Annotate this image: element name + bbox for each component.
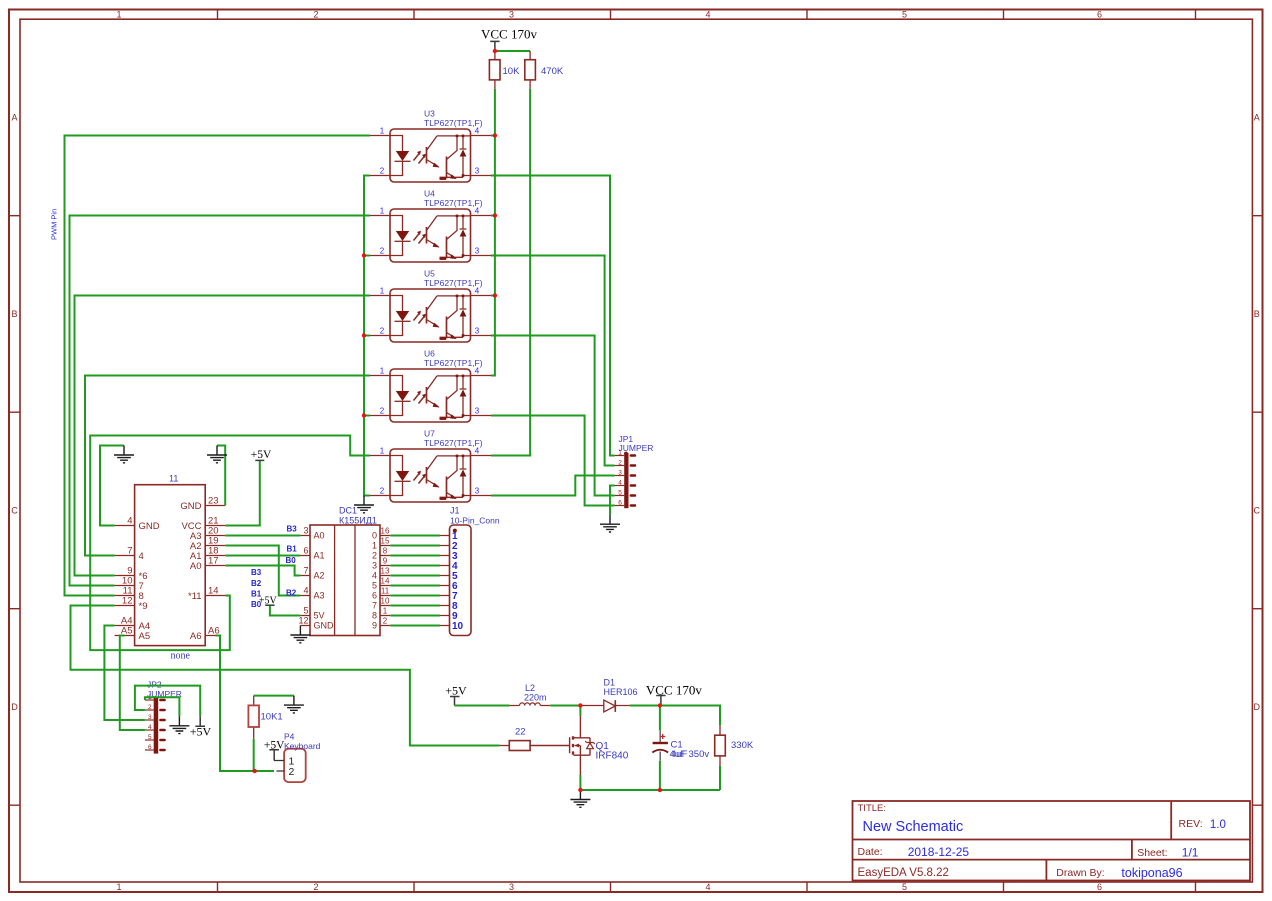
svg-text:*9: *9 — [139, 601, 148, 612]
wire VCC node to 330K — [660, 706, 720, 726]
capacitor C1 4uF 350v — [652, 706, 709, 791]
svg-text:VCC 170v: VCC 170v — [646, 683, 702, 698]
wire U7 pin1 to IC pin 14(*11) — [90, 436, 370, 651]
svg-text:1: 1 — [372, 541, 377, 551]
svg-text:9: 9 — [383, 557, 388, 566]
optocoupler U5 TLP627 — [370, 269, 491, 343]
svg-text:A2: A2 — [314, 571, 325, 581]
wire VCC to 470K top — [495, 50, 530, 52]
wires DC1 outputs to J1 — [390, 536, 440, 626]
junction drain node — [578, 703, 582, 707]
inductor L2 220m — [510, 683, 551, 706]
svg-text:220m: 220m — [524, 692, 547, 702]
svg-text:1: 1 — [116, 882, 121, 892]
svg-text:14: 14 — [381, 577, 390, 586]
junction U5 pin4 — [493, 293, 497, 297]
svg-text:8: 8 — [383, 547, 388, 556]
wire IC A6 to P4 pin2 — [216, 636, 275, 772]
connector P4 Keyboard — [274, 732, 321, 782]
svg-text:5: 5 — [372, 581, 377, 591]
svg-text:10: 10 — [381, 597, 390, 606]
power flag +5V (P4) — [264, 740, 285, 761]
svg-text:TLP627(TP1,F): TLP627(TP1,F) — [424, 358, 483, 368]
svg-text:К155ИД1: К155ИД1 — [339, 515, 377, 525]
svg-text:7: 7 — [127, 546, 132, 557]
svg-text:5: 5 — [303, 606, 308, 616]
svg-text:16: 16 — [381, 527, 390, 536]
svg-text:5: 5 — [902, 9, 907, 19]
wire IC A5 to JP2 pin4 — [120, 636, 145, 731]
svg-text:B: B — [11, 309, 17, 319]
svg-text:B3: B3 — [251, 568, 262, 577]
svg-text:+5V: +5V — [190, 725, 212, 739]
svg-text:5V: 5V — [314, 611, 325, 621]
svg-text:22: 22 — [515, 727, 526, 738]
svg-text:10: 10 — [452, 621, 464, 632]
wire IC A2 to DC1 A3 (net B2) — [225, 546, 300, 596]
junction 10K1/P4 — [252, 769, 256, 773]
ground (right of 10K1) — [284, 696, 304, 713]
svg-text:EasyEDA V5.8.22: EasyEDA V5.8.22 — [858, 867, 949, 879]
svg-text:TLP627(TP1,F): TLP627(TP1,F) — [424, 198, 483, 208]
svg-text:J1: J1 — [450, 506, 460, 516]
svg-text:2: 2 — [383, 617, 388, 626]
junction source/ground — [578, 788, 582, 792]
junction VCC/10K — [493, 49, 497, 53]
svg-text:A5: A5 — [139, 631, 151, 642]
junction U5 pin2 — [362, 333, 366, 337]
power flag VCC 170v (bottom) — [646, 683, 702, 706]
connector J1 10-Pin_Conn — [440, 506, 500, 636]
svg-text:2: 2 — [289, 766, 295, 778]
transistor Q1 IRF840 — [530, 706, 629, 776]
svg-text:B0: B0 — [286, 556, 297, 565]
svg-text:5: 5 — [618, 490, 622, 497]
svg-text:1/1: 1/1 — [1182, 846, 1199, 860]
svg-text:TLP627(TP1,F): TLP627(TP1,F) — [424, 118, 483, 128]
svg-text:2018-12-25: 2018-12-25 — [908, 845, 970, 859]
wire +5V to L2 — [455, 705, 510, 707]
wire Q1 source to bottom rail — [580, 766, 720, 790]
svg-text:330K: 330K — [731, 740, 754, 751]
svg-text:14: 14 — [208, 586, 219, 597]
wire opto pin2 column — [364, 176, 370, 496]
wire U4 pin3 to JP1 pin2 — [491, 256, 615, 466]
svg-text:none: none — [171, 651, 191, 662]
power flag +5V (above IC) — [251, 449, 272, 461]
svg-text:TLP627(TP1,F): TLP627(TP1,F) — [424, 438, 483, 448]
svg-text:470K: 470K — [541, 66, 564, 77]
wire JP1 pin4 to ground — [610, 486, 615, 515]
wire IC pin4 GND to ground — [100, 446, 124, 526]
svg-text:B2: B2 — [286, 588, 297, 597]
svg-text:13: 13 — [381, 567, 390, 576]
svg-text:JUMPER: JUMPER — [619, 443, 654, 453]
svg-text:GND: GND — [314, 621, 335, 631]
svg-text:VCC 170v: VCC 170v — [481, 27, 537, 42]
svg-text:15: 15 — [381, 537, 390, 546]
ground at Q1 source — [570, 790, 590, 807]
svg-text:C: C — [1253, 506, 1260, 516]
svg-text:2: 2 — [148, 704, 152, 711]
svg-text:0: 0 — [372, 531, 377, 541]
svg-text:tokipona96: tokipona96 — [1121, 866, 1182, 880]
svg-text:Drawn By:: Drawn By: — [1056, 867, 1104, 879]
svg-text:4: 4 — [372, 571, 377, 581]
svg-text:3: 3 — [372, 561, 377, 571]
svg-text:11: 11 — [381, 587, 390, 596]
wire JP2 pin2 to +5V — [135, 686, 200, 717]
svg-text:C: C — [11, 506, 18, 516]
svg-text:6: 6 — [148, 744, 152, 751]
svg-text:P4: P4 — [284, 732, 295, 742]
svg-text:4: 4 — [139, 551, 144, 562]
svg-text:6: 6 — [1097, 9, 1102, 19]
power flag +5V (bottom rail) — [445, 683, 467, 705]
svg-text:+5V: +5V — [445, 683, 467, 697]
wire IC A0 to DC1 A2 (net B0) — [225, 566, 300, 576]
svg-text:TITLE:: TITLE: — [858, 803, 887, 814]
svg-text:2: 2 — [372, 551, 377, 561]
wire IC pin21 VCC to +5V — [225, 460, 260, 525]
power flag VCC 170v (top) — [481, 27, 537, 52]
ground under opto pin2 column — [354, 496, 374, 513]
svg-text:D1: D1 — [604, 678, 616, 688]
svg-text:A: A — [11, 113, 17, 123]
junction U6 pin2 — [362, 413, 366, 417]
svg-text:3: 3 — [509, 882, 514, 892]
wire 10K1 top to ground — [254, 695, 294, 697]
svg-text:4: 4 — [148, 724, 152, 731]
svg-text:TLP627(TP1,F): TLP627(TP1,F) — [424, 278, 483, 288]
svg-text:A: A — [1254, 113, 1260, 123]
svg-text:6: 6 — [618, 500, 622, 507]
svg-text:4: 4 — [127, 516, 132, 527]
IC DC1 K155ID1 — [298, 506, 390, 636]
ground under JP1 — [600, 515, 620, 532]
wire U6 pin1 to IC pin 7(4) — [85, 376, 370, 556]
wire IC pin23 GND to ground — [217, 446, 225, 506]
junction VCC 170v node — [658, 703, 662, 707]
svg-text:GND: GND — [180, 501, 201, 512]
resistor 470K — [525, 51, 564, 89]
wire 10K bottom to opto pin4 column — [491, 89, 495, 376]
svg-text:HER106: HER106 — [604, 687, 638, 697]
svg-text:B2: B2 — [251, 579, 262, 588]
junction U4 pin2 — [362, 253, 366, 257]
svg-text:4: 4 — [705, 882, 710, 892]
svg-text:D: D — [11, 702, 18, 712]
wire D1 to VCC node — [630, 705, 660, 707]
svg-text:5: 5 — [902, 882, 907, 892]
svg-text:3: 3 — [303, 526, 308, 536]
svg-text:6: 6 — [303, 546, 308, 556]
wire U5 pin1 to IC pin 9(*6) — [75, 296, 371, 576]
wire DC1 5V pin to +5V — [270, 605, 301, 615]
svg-text:1: 1 — [116, 9, 121, 19]
frame row ticks — [9, 216, 1263, 806]
svg-text:DC1: DC1 — [339, 506, 357, 516]
junction U3 pin4 — [493, 133, 497, 137]
svg-text:PWM Pin: PWM Pin — [50, 209, 59, 240]
svg-text:10K: 10K — [503, 66, 521, 77]
IC U? (designator 11) — [115, 474, 226, 662]
wire JP2 pin1 to ground — [145, 697, 180, 716]
svg-text:3: 3 — [509, 9, 514, 19]
svg-text:Sheet:: Sheet: — [1137, 847, 1167, 859]
svg-text:3: 3 — [148, 714, 152, 721]
svg-text:2: 2 — [313, 882, 318, 892]
svg-text:New Schematic: New Schematic — [863, 819, 964, 835]
svg-text:6: 6 — [1097, 882, 1102, 892]
svg-text:B3: B3 — [287, 525, 298, 534]
svg-text:1.0: 1.0 — [1210, 819, 1226, 831]
svg-text:A1: A1 — [314, 551, 325, 561]
wire U7 pin3 to JP1 pin3 — [491, 476, 615, 496]
svg-text:A6: A6 — [190, 631, 202, 642]
svg-text:4: 4 — [618, 480, 622, 487]
resistor 22 (gate) — [500, 727, 530, 751]
svg-text:*11: *11 — [188, 591, 202, 602]
svg-text:2: 2 — [313, 9, 318, 19]
svg-text:23: 23 — [208, 496, 219, 507]
svg-text:4: 4 — [303, 586, 308, 596]
svg-text:+5V: +5V — [251, 449, 272, 461]
svg-text:6: 6 — [372, 591, 377, 601]
junction C1 bottom — [658, 788, 662, 792]
ground (right of JP2) — [169, 716, 189, 733]
optocoupler U6 TLP627 — [370, 349, 491, 423]
svg-text:REV:: REV: — [1179, 818, 1203, 830]
svg-text:Date:: Date: — [858, 846, 883, 858]
wire IC A4 to JP2 pin3 — [104, 626, 144, 721]
svg-text:12: 12 — [298, 616, 308, 626]
connector JP1 JUMPER — [615, 434, 654, 508]
svg-text:7: 7 — [303, 566, 308, 576]
wire 470K bottom to U7 pin4 — [491, 89, 530, 456]
optocoupler U7 TLP627 — [370, 429, 491, 503]
svg-text:A0: A0 — [190, 561, 202, 572]
diode D1 HER106 — [580, 678, 637, 712]
svg-text:Keyboard: Keyboard — [284, 741, 321, 751]
svg-text:4: 4 — [705, 9, 710, 19]
svg-text:8: 8 — [372, 611, 377, 621]
wire U3 pin1 to IC pin 11(8) — [65, 136, 371, 596]
resistor 10K — [489, 51, 520, 89]
svg-text:A3: A3 — [314, 591, 325, 601]
svg-text:3: 3 — [618, 470, 622, 477]
ground at DC1 pin12 — [290, 626, 310, 643]
power flag +5V (DC1) — [259, 595, 278, 606]
wire L2 to drain node — [550, 705, 580, 707]
svg-text:GND: GND — [139, 521, 160, 532]
svg-text:B1: B1 — [287, 545, 298, 554]
svg-text:A0: A0 — [314, 531, 325, 541]
wire U4 pin1 to IC pin 10(7) — [70, 216, 371, 586]
wire U3 pin3 to JP1 pin1 — [491, 176, 615, 456]
svg-text:10K1: 10K1 — [261, 712, 283, 723]
svg-text:2: 2 — [618, 460, 622, 467]
svg-text:9: 9 — [372, 621, 377, 631]
svg-text:10-Pin_Conn: 10-Pin_Conn — [450, 515, 500, 525]
optocoupler U4 TLP627 — [370, 189, 491, 263]
svg-text:IRF840: IRF840 — [596, 751, 629, 762]
wire IC A1 to DC1 A1 (net B1) — [225, 555, 300, 557]
wire 10K1 bottom to A6/P4 net — [253, 739, 255, 771]
frame column ticks — [218, 10, 1196, 893]
resistor 330K — [715, 725, 754, 765]
ground (left of IC top) — [114, 446, 134, 463]
svg-text:11: 11 — [169, 474, 178, 484]
wire IC A3 to DC1 A0 (net B3) — [225, 535, 300, 537]
svg-text:B: B — [1254, 309, 1260, 319]
svg-text:D: D — [1253, 702, 1260, 712]
title block — [853, 801, 1251, 881]
svg-text:7: 7 — [372, 601, 377, 611]
svg-text:12: 12 — [122, 596, 133, 607]
wire U6 pin3 to JP1 pin6 — [491, 416, 615, 506]
svg-text:4uF: 4uF — [671, 749, 688, 760]
wire U5 pin3 to JP1 pin5 — [491, 336, 615, 496]
connector JP2 JUMPER — [145, 680, 182, 754]
svg-text:1: 1 — [383, 607, 388, 616]
power flag +5V (below JP2, flipped) — [190, 716, 212, 738]
wire IC pin12 *9 to gate resistor 22 — [71, 606, 500, 746]
junction U4 pin4 — [493, 213, 497, 217]
resistor 10K1 — [248, 696, 282, 739]
ground (above IC) — [207, 446, 227, 463]
svg-text:17: 17 — [208, 556, 219, 567]
optocoupler U3 TLP627 — [370, 109, 491, 183]
svg-text:5: 5 — [148, 734, 152, 741]
svg-text:L2: L2 — [525, 683, 535, 693]
